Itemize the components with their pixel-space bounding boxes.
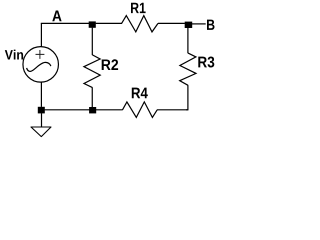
resistor R2 <box>84 55 100 88</box>
label R4 <box>132 88 148 99</box>
wire: R2 to bottom junction <box>91 87 93 107</box>
node A junction <box>89 21 96 27</box>
wire: R4 to bottom right corner <box>157 109 188 111</box>
wire: R3 down to bottom right corner <box>186 85 188 110</box>
voltage source Vin circle <box>23 47 59 83</box>
junction: source bottom node <box>38 107 45 114</box>
label Vin <box>5 50 23 60</box>
resistor R4 <box>123 102 158 118</box>
wire: node B stub to label B <box>192 23 206 25</box>
voltage source + polarity mark <box>36 50 45 59</box>
junction: R2 bottom node <box>89 107 96 113</box>
ground symbol <box>31 127 51 137</box>
wire: node A to R1 <box>96 22 122 24</box>
voltage source sine wave <box>27 62 51 71</box>
wire: node B down to R3 <box>187 28 189 53</box>
wire: R1 to node B <box>158 22 185 24</box>
label R2 <box>102 59 118 70</box>
label R3 <box>198 57 214 68</box>
wire: ground stem <box>41 113 43 127</box>
resistor R1 <box>122 16 158 32</box>
node B junction <box>185 22 193 28</box>
wire: bottom horizontal junction to R4 <box>45 109 123 111</box>
label B <box>207 20 215 30</box>
resistor R3 <box>180 53 196 85</box>
label A <box>52 11 61 22</box>
wire: source bottom to ground junction <box>40 82 42 107</box>
wire: source top to top-left corner <box>40 23 42 46</box>
label R1 <box>131 3 146 13</box>
wire: node A down to R2 <box>91 28 93 55</box>
wire: top horizontal corner to node A <box>41 22 89 24</box>
